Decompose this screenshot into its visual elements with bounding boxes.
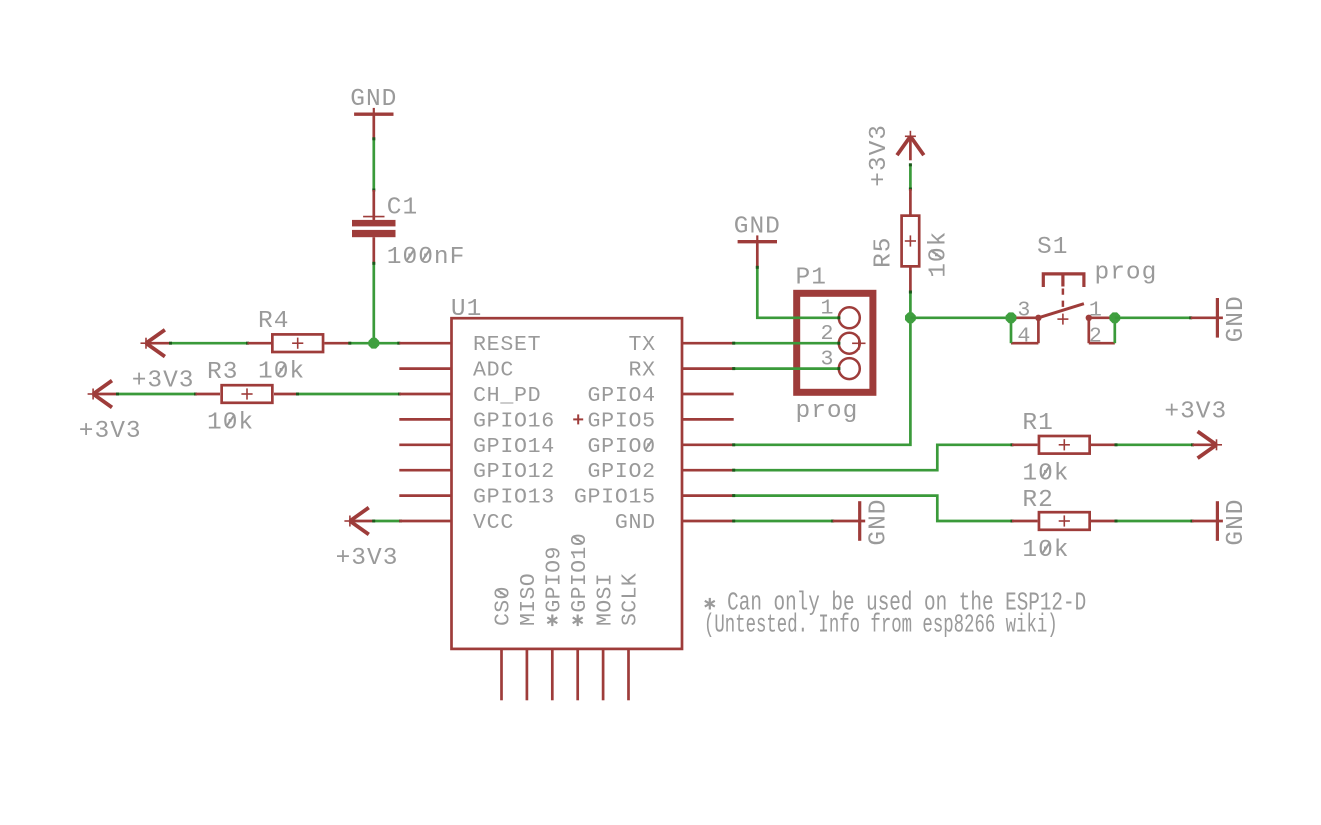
pin U1 GPIO0 <box>588 435 734 459</box>
wire C1 to RESET net <box>372 262 375 343</box>
wire R4 to RESET pin <box>324 342 400 345</box>
svg-text:P1: P1 <box>796 265 827 292</box>
ground GND (above P1) <box>734 214 781 244</box>
wire +3V3 to R5 <box>909 163 912 215</box>
svg-text:CH_PD: CH_PD <box>473 384 541 408</box>
svg-text:S1: S1 <box>1037 234 1068 261</box>
wire GND to C1 <box>372 116 375 192</box>
wire R2 to GND <box>1091 520 1223 523</box>
svg-text:RESET: RESET <box>473 333 541 357</box>
pin U1 *GPIO10 <box>568 533 592 700</box>
svg-text:MOSI: MOSI <box>593 573 617 626</box>
svg-text:ADC: ADC <box>473 359 514 383</box>
supply +3V3 (R1) <box>1164 398 1227 458</box>
svg-text:GPIO12: GPIO12 <box>473 460 555 484</box>
pin U1 CH_PD <box>399 384 541 408</box>
svg-text:GPIO2: GPIO2 <box>588 460 656 484</box>
supply +3V3 (VCC) <box>336 508 399 572</box>
svg-text:GND: GND <box>615 511 656 535</box>
svg-text:GND: GND <box>1223 498 1250 545</box>
pin U1 MISO <box>517 573 541 700</box>
svg-text:+3V3: +3V3 <box>132 368 195 395</box>
pin marker GPIO5 <box>573 414 583 424</box>
pin U1 GPIO5 <box>588 409 734 433</box>
svg-text:prog: prog <box>1095 260 1158 287</box>
supply +3V3 (RESET pullup) <box>132 330 195 395</box>
svg-text:GND: GND <box>865 498 892 545</box>
wire +3V3 to R4 <box>169 342 271 345</box>
resistor R1 <box>1022 410 1089 487</box>
wire GND to P1 pin 1 <box>756 243 841 319</box>
wire TX to P1 pin 2 <box>732 342 840 345</box>
svg-text:GPIO0: GPIO0 <box>588 435 656 459</box>
node S1 right junction <box>1109 312 1120 323</box>
IC U1 ESP module box <box>451 296 682 649</box>
svg-text:R5: R5 <box>871 236 898 267</box>
svg-text:TX: TX <box>628 333 655 357</box>
resistor R3 <box>207 359 272 437</box>
svg-text:4: 4 <box>1017 325 1030 349</box>
svg-text:GND: GND <box>1223 295 1250 342</box>
svg-text:100nF: 100nF <box>387 244 466 271</box>
pin U1 SCLK <box>619 573 643 700</box>
svg-text:GPIO4: GPIO4 <box>588 384 656 408</box>
svg-text:R2: R2 <box>1022 487 1053 514</box>
svg-text:10k: 10k <box>207 410 254 437</box>
svg-text:R1: R1 <box>1022 410 1053 437</box>
pin U1 MOSI <box>593 573 617 700</box>
svg-text:CS0: CS0 <box>492 586 516 626</box>
resistor R2 <box>1022 487 1089 564</box>
wire R1 to +3V3 <box>1091 443 1194 446</box>
svg-text:3: 3 <box>1017 299 1030 323</box>
supply +3V3 (R5 top) <box>866 124 924 187</box>
wire GPIO0 net <box>732 318 910 447</box>
svg-text:1: 1 <box>1089 299 1102 323</box>
capacitor C1 100nF <box>352 190 465 271</box>
svg-text:+3V3: +3V3 <box>1164 398 1227 425</box>
pin U1 GPIO16 <box>399 409 555 433</box>
svg-text:GND: GND <box>350 86 397 113</box>
pin U1 RESET <box>399 333 541 357</box>
pin U1 CS0 <box>492 586 516 700</box>
pin U1 GPIO13 <box>399 486 555 510</box>
svg-text:10k: 10k <box>1022 537 1069 564</box>
resistor R5 10k <box>871 216 953 278</box>
node RESET junction <box>368 338 379 349</box>
pin U1 *GPIO9 <box>543 546 567 700</box>
switch S1 prog <box>1011 234 1157 348</box>
svg-text:R3: R3 <box>207 359 238 386</box>
svg-text:C1: C1 <box>387 194 418 221</box>
ground GND (top, above C1) <box>350 86 397 116</box>
node S1 left junction <box>1006 312 1017 323</box>
svg-text:R4: R4 <box>258 308 289 335</box>
svg-text:prog: prog <box>796 398 859 425</box>
svg-text:GPIO15: GPIO15 <box>574 486 656 510</box>
svg-text:GND: GND <box>734 214 781 241</box>
node prog junction <box>905 312 916 323</box>
svg-text:(Untested. Info from esp8266 w: (Untested. Info from esp8266 wiki) <box>704 610 1058 639</box>
svg-text:2: 2 <box>1089 325 1102 349</box>
wire GND pin to ground <box>732 520 865 523</box>
svg-text:GPIO5: GPIO5 <box>588 409 656 433</box>
svg-text:U1: U1 <box>451 296 482 323</box>
pin U1 GPIO15 <box>574 486 734 510</box>
svg-text:+3V3: +3V3 <box>336 545 399 572</box>
svg-text:GPIO13: GPIO13 <box>473 486 555 510</box>
resistor R4 <box>258 308 323 386</box>
pin U1 VCC <box>399 511 514 535</box>
supply +3V3 (CH_PD pullup) <box>79 381 142 445</box>
svg-text:GPIO14: GPIO14 <box>473 435 555 459</box>
svg-text:RX: RX <box>628 359 655 383</box>
svg-text:10k: 10k <box>258 359 305 386</box>
svg-text:VCC: VCC <box>473 511 514 535</box>
pin U1 GPIO12 <box>399 460 555 484</box>
wire R3 to CH_PD pin <box>274 393 401 396</box>
svg-text:GPIO10: GPIO10 <box>568 533 592 613</box>
wire R5 to prog node <box>909 267 912 318</box>
ground GND (right of S1) <box>1217 295 1250 342</box>
svg-text:10k: 10k <box>1022 460 1069 487</box>
wire RX to P1 pin 3 <box>732 367 840 370</box>
wire GPIO2 to R1 <box>732 443 1037 471</box>
pin U1 RX <box>628 359 733 383</box>
svg-text:GPIO16: GPIO16 <box>473 409 555 433</box>
wire prog node to S1 <box>910 316 1011 319</box>
svg-text:+3V3: +3V3 <box>866 124 893 187</box>
pin U1 ADC <box>399 359 514 383</box>
pin U1 GND <box>615 511 734 535</box>
wire S1 pin loops <box>1011 318 1115 343</box>
svg-text:10k: 10k <box>925 231 952 278</box>
note text <box>704 588 1086 640</box>
ground GND (right of R2) <box>1217 498 1250 545</box>
ground GND (below U1 GND pin) <box>860 498 893 545</box>
connector P1 prog <box>796 265 873 425</box>
svg-text:GPIO9: GPIO9 <box>543 546 567 612</box>
pin U1 GPIO2 <box>588 460 734 484</box>
wire +3V3 to VCC pin <box>372 520 402 523</box>
svg-text:+3V3: +3V3 <box>79 418 142 445</box>
wire +3V3 to R3 <box>116 393 220 396</box>
svg-text:MISO: MISO <box>517 573 541 626</box>
svg-text:SCLK: SCLK <box>619 573 643 626</box>
pin U1 TX <box>628 333 733 357</box>
wire GPIO15 to R2 <box>732 494 1037 522</box>
wire S1 to GND <box>1115 316 1223 319</box>
pin U1 GPIO4 <box>588 384 734 408</box>
pin U1 GPIO14 <box>399 435 555 459</box>
